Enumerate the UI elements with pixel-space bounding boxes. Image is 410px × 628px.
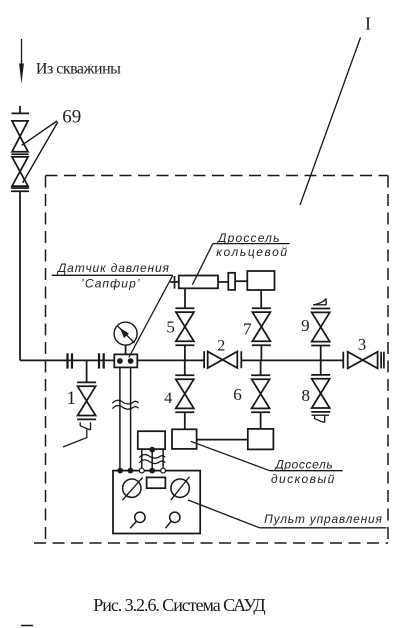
- svg-text:5: 5: [166, 318, 175, 337]
- svg-text:Из скважины: Из скважины: [36, 60, 121, 77]
- svg-text:2: 2: [217, 338, 225, 355]
- svg-text:Датчик давления: Датчик давления: [56, 261, 170, 275]
- svg-text:I: I: [365, 14, 371, 34]
- svg-text:Рис. 3.2.6. Система САУД: Рис. 3.2.6. Система САУД: [93, 595, 265, 615]
- svg-text:6: 6: [233, 385, 242, 404]
- svg-text:’Сапфир’: ’Сапфир’: [81, 277, 140, 291]
- svg-text:дисковый: дисковый: [271, 472, 335, 486]
- svg-text:4: 4: [164, 390, 172, 407]
- svg-text:7: 7: [243, 320, 252, 339]
- svg-text:3: 3: [358, 335, 367, 354]
- svg-text:9: 9: [301, 316, 310, 335]
- svg-text:Дроссель: Дроссель: [216, 231, 280, 245]
- svg-text:Пульт управления: Пульт управления: [264, 512, 382, 526]
- svg-text:8: 8: [302, 386, 311, 405]
- svg-text:кольцевой: кольцевой: [216, 245, 287, 259]
- svg-text:69: 69: [62, 106, 81, 127]
- svg-text:Дроссель: Дроссель: [273, 458, 332, 472]
- svg-text:1: 1: [66, 388, 76, 409]
